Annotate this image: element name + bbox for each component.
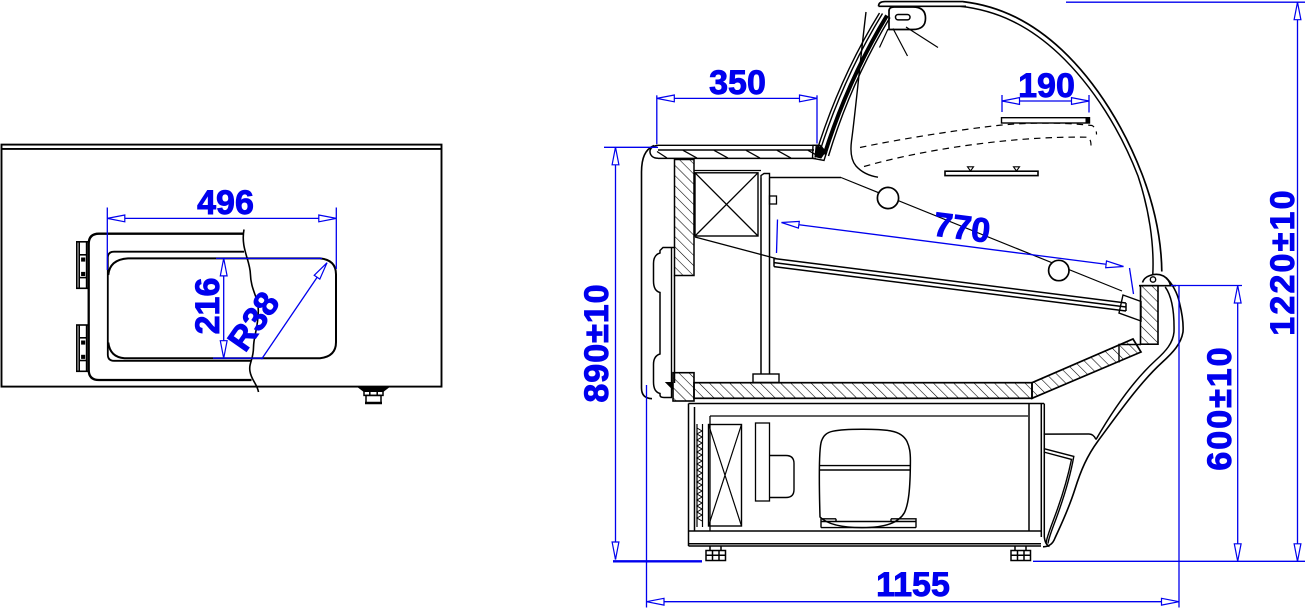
- section: deck band left wedge: [666, 383, 673, 390]
- svg-text:190: 190: [1018, 67, 1075, 105]
- section: post shelf bracket: [770, 196, 777, 204]
- section: post top cap: [761, 174, 770, 179]
- section: worktop top surface line: [656, 144, 818, 146]
- section: lamp leader lines: [880, 27, 939, 56]
- section: insulated panel X-box: [695, 173, 758, 236]
- left view: drain fitting under case: [360, 388, 388, 403]
- section: middle shelf bracket ticks: [968, 167, 1020, 171]
- section: upper display shelf: [1002, 118, 1090, 123]
- section: front sill step: [1119, 345, 1141, 363]
- section: rear outer wall: [642, 146, 655, 399]
- section: machine compartment inner top line: [710, 416, 1028, 531]
- section: front bumper inner curve: [1096, 287, 1174, 440]
- left view: break line (wavy cut): [243, 230, 258, 393]
- section: worktop laminate hatch: [657, 150, 816, 158]
- left view: top edge second line: [2, 148, 442, 150]
- dimension 190: [1002, 95, 1089, 113]
- svg-text:216: 216: [189, 278, 227, 335]
- section: front bumper outer curve: [1043, 278, 1183, 547]
- section: worktop bullnose left edge: [650, 146, 658, 159]
- section: post base plate: [753, 374, 779, 383]
- section: glass end pivot circle: [1150, 277, 1155, 282]
- dimension 600±10: [1171, 286, 1242, 562]
- section: curved glass dome outer line: [963, 2, 1162, 272]
- section: lower light globe: [1049, 260, 1069, 280]
- section: back insulation hatched strip: [675, 160, 695, 276]
- section: kick panel double line: [1044, 449, 1074, 544]
- section: lamp housing: [889, 7, 926, 30]
- section: machine compartment outline: [689, 404, 1050, 547]
- dimension 1220±10: [1066, 2, 1305, 561]
- left view: opening outer edge (left of break): [108, 252, 251, 361]
- svg-text:890±10: 890±10: [578, 283, 616, 402]
- section: upper light globe: [877, 187, 898, 208]
- section: machine base channel: [689, 531, 1042, 546]
- left view: hinge top: [77, 242, 89, 288]
- svg-text:600±10: 600±10: [1201, 345, 1239, 470]
- section: glass support diagonal line: [841, 178, 1122, 292]
- left view: dimension 216: [213, 258, 322, 358]
- section: rear sliding door panel with gasket bumps: [654, 248, 675, 398]
- section: upper dashed shelf-glass curve: [860, 123, 1097, 147]
- section: front sill top line: [1139, 285, 1176, 287]
- section: glass clamp at worktop right end: [813, 145, 827, 160]
- section: center support post: [761, 178, 770, 374]
- section: compressor base plate: [821, 519, 916, 528]
- datum line at floor: [613, 560, 702, 562]
- section: bumper inner horizontal return: [1044, 434, 1096, 440]
- section: middle display shelf: [945, 171, 1038, 175]
- svg-text:1220±10: 1220±10: [1264, 188, 1302, 336]
- section: lift-up front glass (tilted panel): [817, 13, 891, 156]
- section: fan bracket plate: [756, 423, 770, 501]
- left view: dimension 496: [107, 208, 336, 271]
- svg-text:770: 770: [931, 206, 992, 251]
- left view: opening lip with R38 corners: [108, 258, 336, 358]
- svg-text:1155: 1155: [876, 566, 950, 604]
- section: compressor weld band: [820, 466, 911, 470]
- section: right machine foot: [1011, 546, 1031, 561]
- svg-text:R38: R38: [221, 285, 288, 358]
- section: compressor body: [819, 429, 910, 527]
- section: front sill hatched block: [1141, 286, 1159, 345]
- left view: hinge bottom: [77, 325, 89, 371]
- svg-text:496: 496: [197, 184, 254, 222]
- dimension 890±10: [604, 147, 658, 559]
- section: worktop band outline: [658, 150, 816, 158]
- dimension 770 (diagonal): [777, 220, 1134, 295]
- section: lamp slot: [896, 15, 911, 20]
- section: condenser serrated strip: [697, 424, 703, 527]
- section: canopy rail line: [770, 177, 841, 179]
- section: lift-up glass dark band: [825, 16, 888, 155]
- section: interior air duct curve: [851, 12, 878, 177]
- svg-text:350: 350: [709, 64, 766, 102]
- section: top cap of dome: [879, 2, 967, 7]
- section: deck right bracket: [1119, 295, 1141, 321]
- section: deck slope hatched band: [1032, 339, 1141, 398]
- section: deck bottom hatched band: [694, 383, 1032, 399]
- section: front rail cap: [1143, 274, 1171, 285]
- section: left machine foot: [706, 546, 726, 561]
- left view: outer case rectangle (plan view): [2, 145, 442, 387]
- section: glass clamp dark wedge: [815, 147, 825, 159]
- section: fan shroud: [770, 456, 795, 498]
- section: diagonal from panel to deck shelf: [695, 237, 776, 259]
- section: worktop underside line: [694, 170, 761, 172]
- section: back inner wall below strip: [674, 276, 676, 384]
- section: deck band left end block: [673, 373, 694, 401]
- section: condenser X-box: [709, 425, 742, 527]
- section: rear door panel inner edge: [671, 248, 673, 398]
- section: curved glass dome inner line: [960, 6, 1153, 274]
- section: lower dashed shelf-glass curve: [864, 137, 1091, 166]
- dimension 350: [657, 95, 817, 144]
- section: slanted display deck bars: [774, 259, 1126, 312]
- dimension 1155: [647, 286, 1180, 608]
- left view: sliding door outer outline (cut by break line): [89, 234, 252, 380]
- left view: radius leader R38: [262, 263, 328, 360]
